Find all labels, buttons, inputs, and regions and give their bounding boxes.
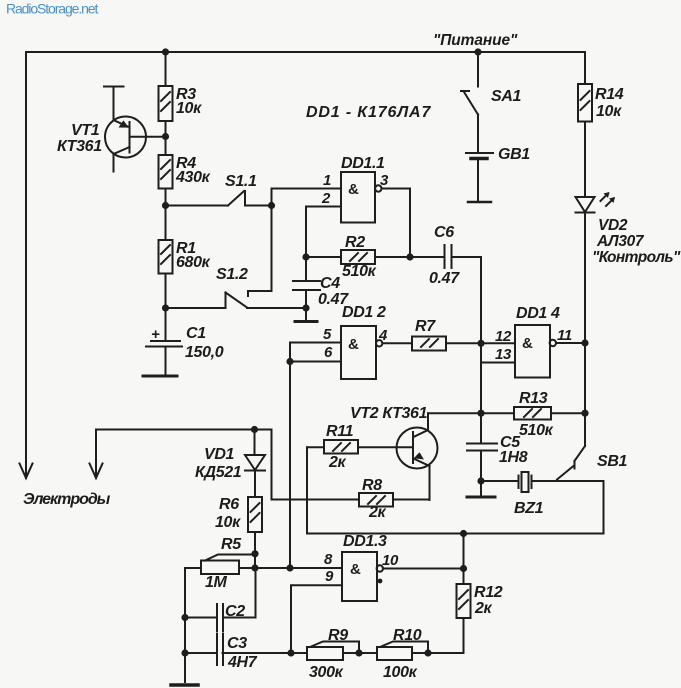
wire R1 to C1 node	[165, 274, 167, 342]
node DD1.3 pin9 junction	[287, 649, 294, 656]
wire DD1.3 pin9	[291, 585, 342, 653]
ground C4 common bar	[295, 308, 317, 322]
svg-text:RadioStorage.net: RadioStorage.net	[6, 1, 98, 17]
node S1.1 output junction	[268, 202, 275, 209]
wire VT1 base to R3/R4 junction	[130, 136, 166, 138]
wire R5 node down to C2	[223, 568, 256, 618]
wire R14 to VD2	[584, 122, 586, 198]
capacitor C4	[293, 257, 349, 308]
resistor R3	[159, 86, 203, 121]
resistor R13	[481, 390, 585, 439]
node VD1 top junction	[251, 426, 258, 433]
svg-text:13: 13	[495, 346, 512, 363]
node C3 left junction	[181, 649, 188, 656]
wire SB1 lower contact to audio bus	[307, 481, 604, 534]
svg-text:5: 5	[323, 326, 332, 343]
battery GB1	[466, 146, 530, 201]
wire DD1.4 pin11 output	[556, 342, 585, 344]
switch SA1	[461, 52, 522, 153]
node pin5/pin6 tie junction	[286, 358, 293, 365]
svg-text:Электроды: Электроды	[23, 491, 111, 508]
wire left rail to electrode 1	[25, 52, 27, 478]
capacitor C2	[185, 603, 245, 632]
svg-text:6: 6	[324, 344, 333, 361]
svg-text:0.47: 0.47	[429, 270, 460, 287]
svg-text:R5: R5	[221, 536, 242, 553]
svg-text:R6: R6	[219, 496, 239, 513]
svg-text:10к: 10к	[596, 103, 622, 120]
svg-text:DD1.1: DD1.1	[341, 155, 385, 172]
svg-text:680к: 680к	[176, 254, 211, 271]
transistor VT1	[57, 87, 146, 172]
svg-text:9: 9	[325, 568, 334, 585]
wire R4 to R1	[165, 189, 167, 241]
wire DD1.3 pin8	[290, 567, 342, 569]
ground C1 common bar	[143, 375, 177, 378]
wire R3 to R4	[165, 121, 167, 155]
resistor R11	[307, 423, 413, 471]
ground GB1 bottom bar	[468, 201, 491, 204]
resistor R4	[159, 155, 211, 189]
capacitor C6	[429, 224, 481, 287]
resistor R2	[306, 234, 444, 280]
capacitor C1	[146, 325, 224, 375]
wire R5 left rail down to ground	[184, 568, 186, 682]
svg-text:2к: 2к	[474, 600, 493, 617]
node R5 wiper junction	[251, 550, 258, 557]
node top bus / SA1 junction	[474, 48, 481, 55]
node C5 / BZ1 junction	[477, 477, 484, 484]
node DD1.3 pin8 junction	[286, 564, 293, 571]
node pin10 / R12 junction	[460, 565, 467, 572]
svg-text:1: 1	[323, 172, 331, 189]
svg-text:R7: R7	[415, 318, 436, 335]
svg-text:8: 8	[324, 551, 333, 568]
svg-text:11: 11	[557, 327, 572, 344]
svg-text:S1.2: S1.2	[216, 266, 248, 283]
node VT1 base junction	[162, 133, 169, 140]
net "Питание" label	[433, 32, 518, 49]
svg-text:DD1.3: DD1.3	[343, 533, 387, 550]
node pin11 / right rail junction	[581, 339, 588, 346]
LED VD2	[576, 192, 681, 266]
wire DD1.2 pin5	[290, 343, 341, 569]
wire C6 to DD1.4 inputs column	[480, 257, 482, 444]
wire S1.1 junction to DD1.1 pin1	[272, 189, 342, 206]
pushbutton SB1	[557, 446, 628, 480]
wire VT2 collector to R13 left node	[428, 412, 481, 414]
svg-text:VD2: VD2	[598, 217, 628, 234]
op-amp gate DD1.2	[323, 304, 388, 379]
resistor R8	[359, 477, 430, 521]
node R10 right junction	[424, 649, 431, 656]
node C2 left junction	[181, 614, 188, 621]
svg-text:КТ361: КТ361	[57, 138, 102, 155]
svg-text:1Н8: 1Н8	[499, 449, 528, 466]
op-amp gate DD1.4	[495, 305, 572, 378]
svg-text:100к: 100к	[383, 664, 418, 681]
trimmer R10	[377, 627, 428, 681]
svg-text:10к: 10к	[176, 100, 202, 117]
wire VD2 to pin11 node and down right rail	[584, 213, 586, 447]
trimmer R9	[307, 627, 377, 681]
wire DD1.3 pin10 output	[383, 568, 464, 570]
transistor VT2	[350, 405, 438, 500]
svg-text:430к: 430к	[175, 169, 211, 186]
buzzer BZ1	[481, 472, 604, 517]
svg-text:SA1: SA1	[491, 88, 522, 105]
svg-text:10: 10	[382, 552, 399, 569]
wire DD1.1 pin3 output to R2 right node	[382, 189, 411, 258]
svg-text:&: &	[348, 336, 359, 353]
svg-text:3: 3	[380, 172, 389, 189]
svg-text:S1.1: S1.1	[225, 173, 257, 190]
wire electrode 2 branch	[96, 430, 359, 500]
svg-text:DD1 2: DD1 2	[342, 304, 386, 321]
svg-text:10к: 10к	[215, 514, 241, 531]
node R12 top junction	[460, 530, 467, 537]
node C4 / S1.2 junction	[302, 304, 309, 311]
electrode arrow 2	[90, 464, 103, 479]
electrode arrow 1	[20, 464, 33, 479]
svg-text:2к: 2к	[328, 454, 347, 471]
svg-text:R8: R8	[362, 477, 382, 494]
svg-text:VD1: VD1	[204, 446, 235, 463]
node R2 right / C6 junction	[406, 253, 413, 260]
svg-text:АЛ307: АЛ307	[596, 233, 645, 250]
svg-text:510к: 510к	[519, 422, 554, 439]
wire R12 bottom to R10 node	[428, 618, 464, 653]
op-amp gate DD1.1	[321, 155, 389, 223]
node R7 out / DD1.4 input junction	[477, 340, 484, 347]
watermark RadioStorage.net	[6, 1, 98, 17]
wire R6 to R5 node	[254, 532, 256, 568]
svg-text:C1: C1	[186, 325, 206, 342]
svg-text:4Н7: 4Н7	[227, 654, 258, 671]
svg-text:R13: R13	[519, 390, 548, 407]
svg-text:12: 12	[495, 328, 512, 345]
svg-text:R12: R12	[474, 584, 503, 601]
node top bus / R3 junction	[162, 48, 169, 55]
wire audio bus to R12	[463, 534, 465, 585]
node R1 / S1.2 / C1 junction	[162, 304, 169, 311]
wire DD1.4 pin13	[481, 362, 515, 364]
svg-text:VT1: VT1	[71, 122, 100, 139]
node R2 left / C4 junction	[302, 253, 309, 260]
svg-text:R11: R11	[326, 423, 354, 440]
svg-text:C6: C6	[434, 224, 454, 241]
resistor R1	[159, 240, 211, 274]
svg-text:&: &	[522, 335, 533, 352]
wire DD1.1 pin2 from C4 node	[306, 207, 341, 258]
svg-text:C2: C2	[225, 603, 245, 620]
resistor R7	[382, 318, 515, 351]
wire R11 left down to audio bus	[306, 447, 308, 533]
svg-text:R9: R9	[328, 627, 348, 644]
svg-text:VT2 КТ361: VT2 КТ361	[350, 405, 428, 422]
switch S1.1	[166, 173, 272, 206]
svg-text:GB1: GB1	[498, 146, 530, 163]
svg-text:"Контроль": "Контроль"	[592, 249, 681, 266]
svg-text:R10: R10	[393, 627, 422, 644]
svg-text:2к: 2к	[368, 504, 387, 521]
svg-text:&: &	[350, 561, 361, 578]
resistor R14	[578, 84, 624, 122]
ground bottom left bar	[171, 683, 198, 687]
svg-text:C3: C3	[227, 635, 247, 652]
svg-text:КД521: КД521	[195, 464, 242, 481]
capacitor C3	[185, 634, 307, 671]
op-amp gate DD1.3	[324, 533, 399, 601]
wire DD1.2 pin6	[290, 361, 341, 363]
svg-text:"Питание": "Питание"	[433, 32, 518, 49]
diode VD1	[195, 430, 265, 498]
svg-text:DD1 4: DD1 4	[516, 305, 560, 322]
svg-text:1М: 1М	[205, 574, 228, 591]
node R9 right junction	[355, 649, 362, 656]
svg-text:BZ1: BZ1	[514, 500, 544, 517]
node R5 right junction	[251, 564, 258, 571]
ground C5 common bar	[467, 481, 495, 497]
wire R3 top lead	[165, 52, 167, 86]
svg-text:510к: 510к	[342, 263, 377, 280]
switch S1.2	[166, 266, 307, 308]
svg-text:DD1 - К176ЛА7: DD1 - К176ЛА7	[306, 104, 431, 121]
node R13 right junction	[581, 410, 588, 417]
svg-text:&: &	[348, 181, 359, 198]
svg-text:R14: R14	[595, 86, 624, 103]
wire top power bus	[26, 51, 585, 53]
svg-text:300к: 300к	[309, 664, 344, 681]
svg-text:2: 2	[321, 190, 331, 207]
svg-text:4: 4	[378, 327, 388, 344]
node S1.1 pole junction	[162, 202, 169, 209]
svg-text:R2: R2	[345, 234, 365, 251]
node R13 left / VT2 emitter junction	[477, 410, 484, 417]
resistor R6	[215, 496, 262, 532]
svg-text:C4: C4	[320, 275, 340, 292]
svg-text:150,0: 150,0	[185, 344, 224, 361]
wire S1.1 junction down to S1.2 throw contact	[248, 206, 272, 297]
wire top bus to R14	[584, 52, 586, 84]
capacitor C5	[467, 434, 528, 481]
resistor R12	[457, 584, 503, 618]
svg-text:SB1: SB1	[597, 453, 628, 470]
trimmer R5	[185, 536, 290, 591]
